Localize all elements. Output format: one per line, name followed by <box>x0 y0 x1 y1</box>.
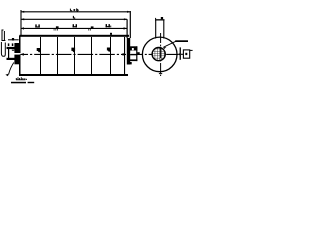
label l1 <box>35 24 40 27</box>
take-up fork right leg <box>163 20 165 39</box>
connector vertical bar <box>180 47 181 59</box>
left bearing bolt tick B <box>12 43 14 46</box>
drum left end disc <box>19 36 21 54</box>
left bearing top flange <box>7 47 19 49</box>
end view outer circle <box>142 37 177 72</box>
left bearing bottom flange <box>7 58 19 60</box>
shell weld divider 1 <box>40 37 41 74</box>
arrow dim2 left <box>21 18 24 20</box>
leader line to hub <box>164 41 177 47</box>
wire shaft centerline right <box>131 53 180 55</box>
left bearing bolt dot <box>12 49 14 51</box>
right bearing bolt dot <box>132 48 134 50</box>
left support bracket lower hook <box>1 42 5 56</box>
arrow pair at x91 <box>91 26 94 28</box>
arrow dim2 right <box>124 18 127 20</box>
connector stem <box>181 53 184 55</box>
end view bottom tick <box>159 73 162 75</box>
tick dots below line at x89 <box>88 29 89 30</box>
arrow dim3 right <box>124 27 127 29</box>
weld mark at divider 1 <box>37 48 41 53</box>
shell weld divider 3 <box>74 37 75 74</box>
left support bracket upper <box>2 30 6 41</box>
right hub band foot <box>130 62 132 64</box>
annotation text marks <box>16 77 25 79</box>
left bearing left wall <box>8 47 9 60</box>
arrow dim3 left <box>21 27 24 29</box>
leader curve bottom left <box>9 63 14 75</box>
wire extension line right inner <box>126 19 128 38</box>
right hub band <box>127 38 130 65</box>
left shaft step line <box>8 39 19 41</box>
arrow dim1 left <box>21 11 24 13</box>
leader arrowhead <box>5 74 8 77</box>
weld tick above divider 5 <box>110 33 112 35</box>
leader bar <box>175 40 188 42</box>
connector dot <box>185 53 187 55</box>
take-up fork tab <box>161 17 163 19</box>
left hub boss <box>14 43 20 53</box>
shell weld divider 5 <box>110 37 111 74</box>
right bearing bottom block <box>130 59 137 61</box>
wire dimension line L+b <box>21 11 131 13</box>
right bearing top block <box>130 46 137 50</box>
leader arrowhead at hub <box>163 47 166 49</box>
take-up fork left leg <box>155 20 157 39</box>
arrow pair at x57 <box>56 26 59 28</box>
weld mark at divider 3 <box>71 48 75 53</box>
take-up fork bar <box>155 19 165 20</box>
right shaft stub <box>137 52 139 54</box>
label L+b <box>70 8 78 11</box>
arrow centerline left <box>20 53 23 56</box>
label l3 <box>106 24 112 27</box>
right bearing mid line <box>130 54 137 55</box>
take-up fork bump <box>155 18 156 19</box>
drum right end line <box>124 37 125 74</box>
annotation underline dashes <box>11 82 26 84</box>
connector square <box>183 50 189 58</box>
drum shell bottom edge <box>20 74 129 76</box>
right bearing right wall <box>136 46 137 61</box>
shell weld divider 2 <box>57 37 58 74</box>
wire extension line right outer <box>129 11 131 38</box>
wire dimension line segments <box>21 27 128 29</box>
connector arrow at circle edge <box>177 53 180 56</box>
end view hub hatched <box>152 48 165 61</box>
label l2 <box>73 24 77 27</box>
tick dots below line at x55 <box>54 29 55 30</box>
centerline main axis <box>20 53 126 55</box>
left bearing bolt tick A <box>8 43 10 46</box>
wire dimension line L <box>21 18 127 20</box>
wire extension line left <box>20 10 22 36</box>
label L <box>73 16 75 18</box>
shell weld divider 4 <box>91 37 92 74</box>
connector tail <box>190 49 193 51</box>
arrow dim1 right <box>127 11 130 13</box>
end view vertical centerline <box>160 33 162 76</box>
drum shell top edge <box>20 35 130 37</box>
arrow centerline right <box>123 53 126 56</box>
left shaft step block <box>12 38 14 41</box>
weld mark at divider 5 <box>107 48 111 53</box>
